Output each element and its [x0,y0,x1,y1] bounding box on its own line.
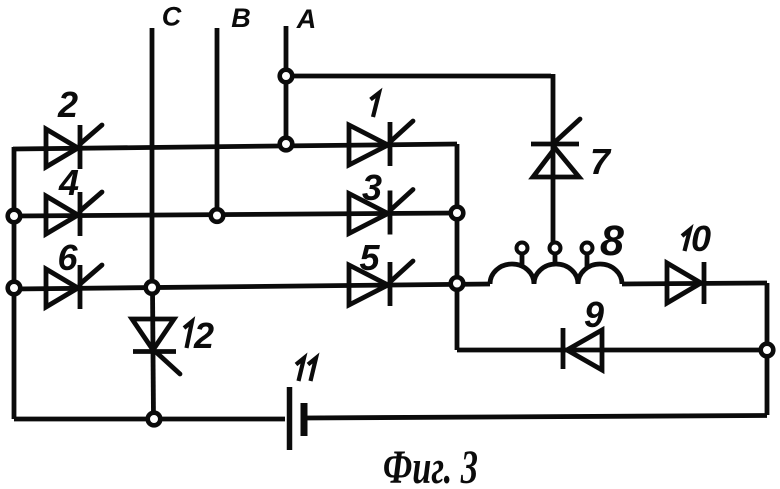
svg-text:A: A [296,4,317,34]
svg-text:9: 9 [584,294,604,335]
svg-text:4: 4 [58,162,79,203]
svg-text:8: 8 [600,217,624,265]
svg-text:Фиг. 3: Фиг. 3 [383,441,478,489]
svg-text:6: 6 [57,237,78,278]
svg-text:2: 2 [57,84,78,125]
svg-text:5: 5 [359,237,380,278]
svg-text:0: 0 [691,218,711,259]
svg-text:2: 2 [193,315,214,356]
svg-text:3: 3 [362,167,382,208]
svg-text:7: 7 [590,141,612,182]
svg-text:B: B [231,3,251,33]
svg-text:C: C [162,2,182,32]
